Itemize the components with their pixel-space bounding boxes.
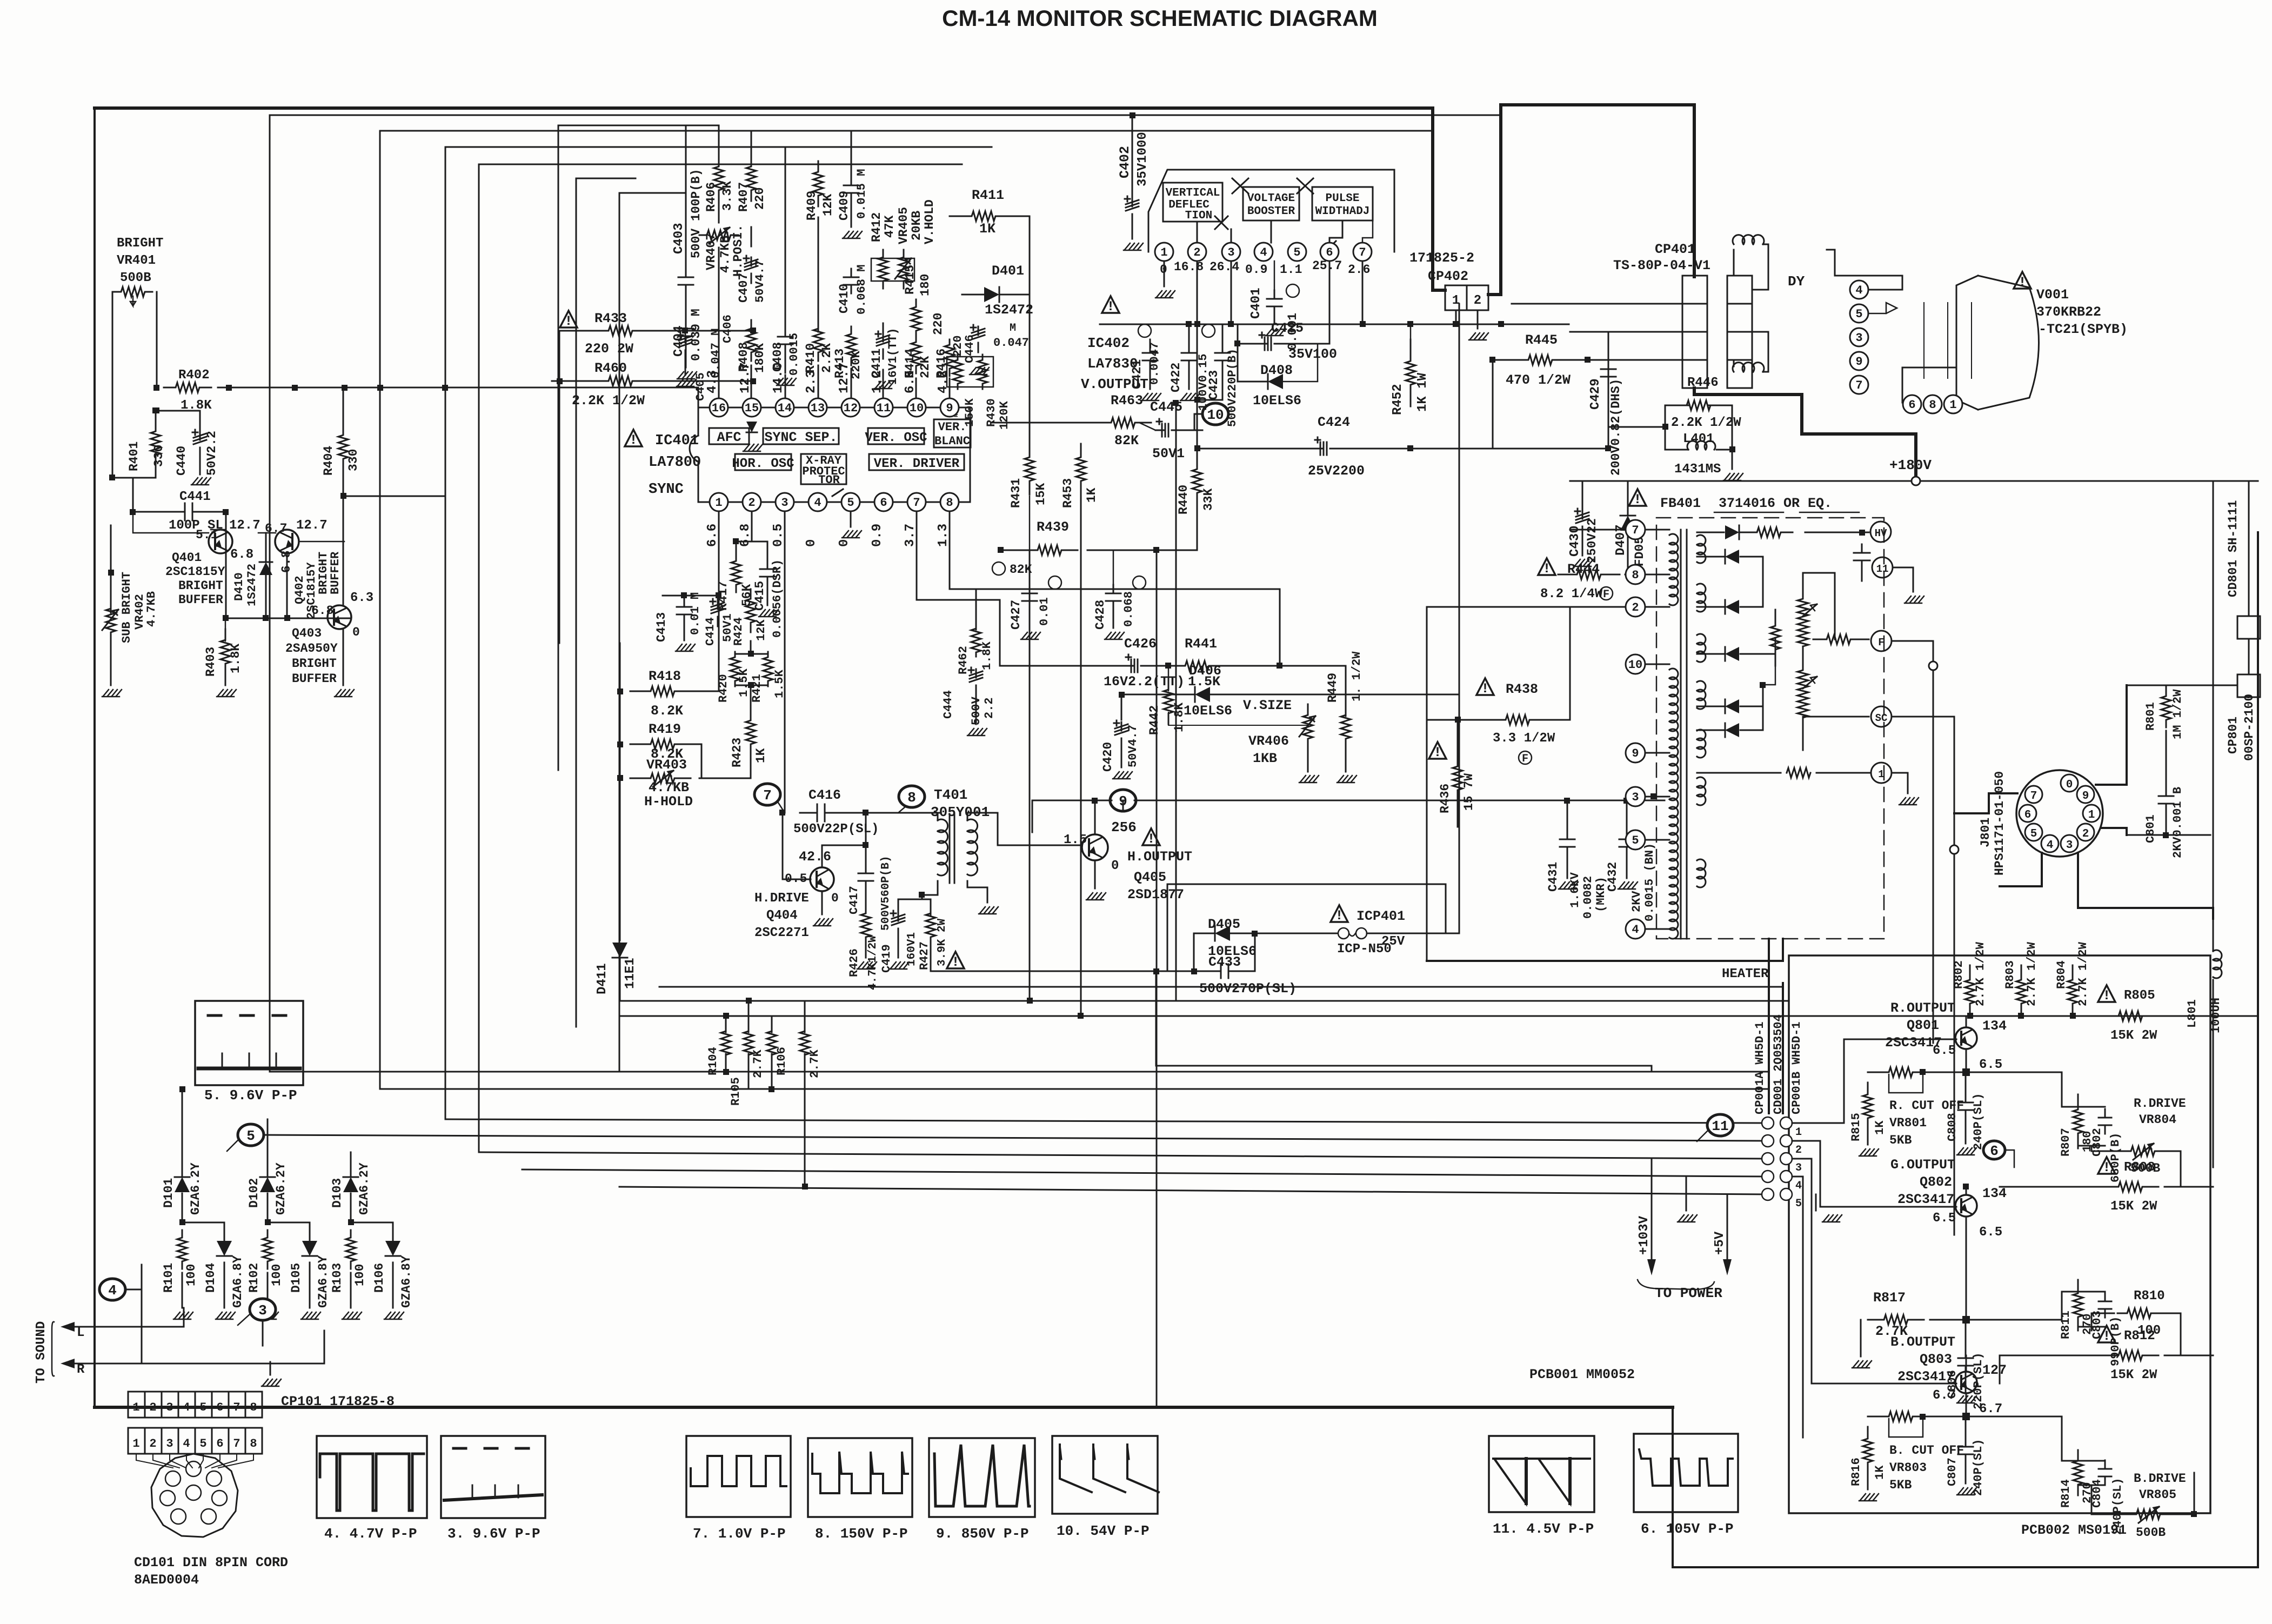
wire R420 R421 bracket: [735, 653, 768, 655]
wire outer border bottom: [95, 1406, 1673, 1409]
svg-text:VR405: VR405: [897, 207, 911, 244]
svg-text:R442: R442: [1147, 705, 1161, 735]
svg-text:12K: 12K: [821, 193, 835, 216]
svg-text:12.7: 12.7: [738, 362, 753, 393]
resistor R439 82K: [1021, 545, 1078, 555]
pin 10: [907, 398, 926, 417]
svg-text:R808: R808: [2124, 1160, 2155, 1175]
svg-text:2: 2: [1632, 601, 1639, 614]
wire RGB collector rail: [1970, 1015, 2114, 1017]
svg-text:15K 2W: 15K 2W: [2110, 1368, 2157, 1382]
svg-text:C415: C415: [753, 581, 767, 611]
wire L801 feed from 180V rail: [2213, 481, 2214, 919]
resistor R424 12K: [746, 589, 756, 632]
svg-text:11E1: 11E1: [623, 958, 638, 989]
wire Q401 base link: [133, 512, 209, 533]
wire J801 bottom feed: [2000, 853, 2042, 886]
svg-text:R453: R453: [1061, 478, 1075, 508]
svg-text:C420: C420: [1101, 742, 1115, 772]
pin IC402 6: [1320, 243, 1339, 261]
svg-text:1: 1: [1949, 398, 1956, 412]
svg-text:330: 330: [346, 449, 360, 471]
resistor R436 15 7W: [1453, 750, 1462, 806]
svg-text:VER.: VER.: [938, 420, 967, 434]
pin FB401 9: [1626, 743, 1645, 763]
wire Q405 top link: [1167, 884, 1446, 885]
circled 11: [1707, 1114, 1733, 1136]
svg-text:VR803: VR803: [1889, 1461, 1927, 1475]
resistor R803 2.7K 1/2W: [2016, 966, 2026, 1017]
wire bus h y2132: [479, 1152, 1768, 1159]
svg-text:R105: R105: [729, 1077, 743, 1106]
pin J801 4: [2041, 835, 2059, 852]
svg-text:VR403: VR403: [646, 757, 687, 773]
wire T401 primary top: [937, 813, 939, 820]
svg-text:Q801: Q801: [1907, 1018, 1939, 1033]
wire resistor on 1 line: [1697, 772, 1781, 774]
svg-text:8: 8: [946, 496, 953, 510]
svg-text:33K: 33K: [1201, 488, 1215, 511]
pin V001 4: [1850, 280, 1868, 299]
wire bus h y1826: [659, 986, 1783, 988]
svg-text:4: 4: [108, 1282, 117, 1299]
svg-text:7. 1.0V P-P: 7. 1.0V P-P: [693, 1526, 786, 1542]
pin IC402 3: [1222, 243, 1240, 261]
flyback core: [1680, 530, 1682, 939]
svg-text:2.2K 1/2W: 2.2K 1/2W: [1671, 416, 1741, 430]
block VER OSC: [868, 428, 924, 444]
wire R453 column down: [1080, 483, 1082, 1016]
pin 14: [776, 398, 794, 417]
resistor R419 8.2K: [630, 739, 695, 749]
potentiometer focus arrow 1: [1803, 604, 1817, 616]
svg-text:C432: C432: [1606, 862, 1620, 892]
connector CP101 row2: [128, 1428, 145, 1454]
svg-text:PULSE: PULSE: [1325, 192, 1359, 205]
svg-text:Q404: Q404: [766, 908, 798, 923]
svg-text:2.6: 2.6: [1348, 263, 1370, 277]
wire 1.8K tap: [157, 410, 200, 412]
wire bus v x499: [270, 115, 1501, 1072]
wire outer border left: [93, 108, 96, 1407]
diode D406 10ELS6: [1195, 687, 1210, 702]
resistor HV line: [1745, 527, 1793, 537]
svg-text:2SC1815Y: 2SC1815Y: [165, 565, 225, 579]
svg-text:D105: D105: [289, 1263, 303, 1293]
wire Q401 emitter row: [226, 618, 350, 619]
svg-text:2SA950Y: 2SA950Y: [285, 641, 338, 656]
wire terminal SC right: [1892, 716, 1954, 718]
svg-text:R411: R411: [972, 188, 1004, 203]
svg-text:8: 8: [1632, 569, 1639, 582]
svg-text:3: 3: [1632, 791, 1639, 804]
svg-text:100: 100: [184, 1264, 198, 1286]
block SYNC SEP: [763, 428, 839, 444]
svg-text:500V560P(B): 500V560P(B): [880, 856, 892, 931]
terminal 11: [1872, 557, 1893, 578]
wire y1972 to CP001: [1156, 1066, 1652, 1072]
svg-text:160V1: 160V1: [906, 932, 918, 966]
resistor R451 150K v: [953, 355, 963, 389]
wire heater to connector: [1782, 983, 1784, 1113]
diode D104 GZA6.8Y: [217, 1241, 232, 1256]
waveform 4: [317, 1436, 427, 1518]
svg-text:R402: R402: [178, 368, 210, 383]
diode flyback top HV: [1725, 525, 1739, 539]
svg-text:R102: R102: [247, 1263, 261, 1293]
svg-text:+103V: +103V: [1637, 1215, 1652, 1255]
svg-text:1.8K: 1.8K: [229, 644, 243, 673]
svg-text:7: 7: [233, 1437, 240, 1451]
capacitor C424 25V2200: [1314, 448, 1322, 450]
resistor R440 33K: [1192, 456, 1202, 506]
svg-text:C414: C414: [704, 617, 717, 646]
wire thick flyback feed: [1694, 388, 1916, 477]
svg-text:6: 6: [1990, 1143, 1999, 1159]
resistor R404 330: [338, 422, 348, 472]
svg-text:134: 134: [1982, 1186, 2007, 1201]
svg-text:WIDTHADJ: WIDTHADJ: [1315, 205, 1370, 218]
zener at pin15: [746, 422, 757, 432]
flyback secondary winding 6: [1697, 777, 1706, 805]
wire divider top: [1803, 573, 1835, 639]
svg-text:9: 9: [1632, 747, 1639, 760]
svg-text:11: 11: [877, 402, 891, 415]
resistor R804 2.7K 1/2W: [2068, 966, 2077, 1017]
pin FB401 4: [1626, 919, 1645, 939]
svg-text:3. 9.6V P-P: 3. 9.6V P-P: [447, 1526, 540, 1542]
svg-text:!: !: [2102, 1160, 2110, 1175]
svg-text:H.OUTPUT: H.OUTPUT: [1127, 849, 1192, 865]
ground C440: [199, 457, 201, 474]
svg-text:!: !: [1147, 831, 1155, 847]
svg-text:R815: R815: [1849, 1113, 1863, 1141]
ground CP001 5: [1815, 1194, 1817, 1211]
warning R433: [560, 311, 577, 328]
capacitor C446 cap 0.047: [978, 326, 979, 335]
svg-text:C429: C429: [1588, 378, 1603, 410]
svg-text:1K: 1K: [754, 748, 768, 763]
svg-text:CD001 2Q053504: CD001 2Q053504: [1772, 1014, 1785, 1114]
svg-text:11: 11: [1876, 563, 1889, 575]
warning R436: [1429, 742, 1446, 759]
svg-text:4: 4: [1795, 1180, 1802, 1192]
svg-text:1K: 1K: [1085, 487, 1099, 503]
block VER DRIVER: [869, 454, 964, 470]
svg-text:C407: C407: [737, 273, 751, 303]
svg-text:5: 5: [1855, 308, 1862, 321]
svg-text:HV: HV: [1875, 527, 1887, 539]
svg-text:8: 8: [250, 1401, 257, 1414]
wire bus h y1983: [270, 1071, 1768, 1073]
svg-text:0: 0: [352, 625, 360, 639]
svg-text:!: !: [1542, 561, 1551, 577]
pin V001 9: [1850, 352, 1868, 370]
connector CP801 00SP-2100: [2237, 674, 2260, 697]
svg-text:2SC3417: 2SC3417: [1897, 1192, 1954, 1207]
svg-text:C444: C444: [941, 690, 955, 719]
potentiometer screen arrow 2: [1803, 677, 1817, 689]
wire J801 left to SC bus: [1954, 793, 2017, 813]
flyback secondary winding 1: [1697, 535, 1706, 563]
pin 4: [808, 493, 827, 511]
circled 6: [1983, 1141, 2005, 1159]
wire collector top rails: [1969, 965, 1971, 978]
svg-text:C427: C427: [1009, 600, 1023, 630]
wire bus v x1033: [558, 125, 719, 770]
svg-text:8AED0004: 8AED0004: [134, 1572, 199, 1588]
wire pin2 left feed: [1427, 606, 1626, 608]
svg-text:C802: C802: [2090, 1128, 2104, 1157]
terminal SC: [1871, 706, 1892, 727]
svg-text:BLANC: BLANC: [934, 435, 970, 448]
ground pin5: [850, 511, 852, 527]
svg-text:D408: D408: [1260, 363, 1293, 378]
wire forest column drops: [718, 248, 720, 398]
svg-text:5: 5: [199, 1437, 206, 1451]
svg-text:CM-14 MONITOR SCHEMATIC DIAGRA: CM-14 MONITOR SCHEMATIC DIAGRAM: [942, 5, 1378, 31]
svg-text:16: 16: [712, 402, 726, 415]
svg-text:D102: D102: [247, 1178, 261, 1208]
pin IC402 1: [1155, 243, 1173, 261]
capacitor C802 680P(B): [2104, 1109, 2106, 1118]
svg-text:0.047: 0.047: [993, 336, 1029, 350]
inductor DY coil bottom: [1733, 363, 1764, 372]
transistor Q401 2SC1815Y: [209, 530, 232, 553]
svg-text:50V4.7: 50V4.7: [1126, 725, 1140, 767]
wire CD801 feed from 180V rail: [2248, 481, 2250, 616]
svg-text:220: 220: [951, 335, 965, 357]
svg-text:4: 4: [814, 496, 821, 510]
svg-text:VER. DRIVER: VER. DRIVER: [874, 457, 960, 471]
svg-text:6.5: 6.5: [1933, 1211, 1956, 1226]
svg-text:R817: R817: [1873, 1290, 1906, 1306]
potentiometer VR803 B.CUT OFF 5KB: [1878, 1412, 1923, 1421]
svg-text:IC401: IC401: [655, 433, 699, 449]
svg-text:R427: R427: [918, 941, 931, 970]
svg-text:BUFFER: BUFFER: [178, 593, 223, 607]
svg-text:9: 9: [1855, 355, 1862, 369]
svg-text:C402: C402: [1117, 146, 1133, 178]
svg-text:F: F: [1878, 637, 1884, 649]
svg-text:6: 6: [216, 1437, 223, 1451]
svg-text:256: 256: [1111, 819, 1137, 836]
svg-text:C808: C808: [1946, 1113, 1959, 1141]
svg-text:12.7: 12.7: [296, 518, 328, 533]
svg-text:!: !: [629, 432, 637, 448]
svg-text:VER. OSC: VER. OSC: [865, 431, 927, 445]
wire R404 junction row: [343, 496, 445, 497]
svg-text:5: 5: [1632, 834, 1639, 847]
warning R808: [2098, 1157, 2115, 1174]
capacitor C425 35V100: [1258, 343, 1267, 345]
capacitor C804 240P(SL): [2104, 1460, 2106, 1469]
svg-text:R423: R423: [730, 738, 744, 767]
svg-text:3.3 1/2W: 3.3 1/2W: [1493, 731, 1555, 746]
svg-text:250V22: 250V22: [1585, 518, 1599, 563]
svg-text:5KB: 5KB: [1889, 1133, 1912, 1147]
svg-text:R.DRIVE: R.DRIVE: [2134, 1097, 2186, 1111]
circled 7: [754, 784, 780, 805]
svg-text:1.2: 1.2: [870, 370, 885, 393]
svg-text:2: 2: [1474, 293, 1481, 308]
block X-RAY PROTECTOR: [801, 454, 846, 484]
svg-text:VR804: VR804: [2139, 1113, 2176, 1127]
svg-text:PCB001 MM0052: PCB001 MM0052: [1529, 1367, 1635, 1382]
socket DIN CD101 outline: [151, 1454, 238, 1537]
svg-text:4.7KB: 4.7KB: [649, 780, 689, 796]
resistor R463 82K: [1095, 418, 1151, 427]
wire node5 stub: [227, 1140, 238, 1151]
resistor R441 1.5K: [1169, 661, 1225, 671]
svg-text:0: 0: [1111, 859, 1119, 873]
pin V001 5: [1850, 304, 1868, 323]
wire bus h y2071: [445, 1119, 1768, 1123]
pin V001 1: [1944, 395, 1962, 413]
diode D106 GZA6.8Y: [385, 1241, 400, 1256]
svg-text:0: 0: [2066, 779, 2073, 791]
svg-text:12: 12: [844, 402, 858, 415]
diode flyback 2: [1725, 550, 1739, 564]
wire Q403 emitter down: [343, 629, 344, 685]
block HOR OSC: [735, 454, 791, 470]
connector DY boxes: [1727, 276, 1752, 304]
svg-text:!: !: [2018, 275, 2026, 290]
terminal HV: [1870, 522, 1891, 542]
resistor flyback divider big top: [1797, 574, 1808, 623]
warning R438: [1476, 678, 1494, 695]
svg-text:5: 5: [847, 496, 854, 510]
svg-text:0.0015: 0.0015: [787, 333, 801, 376]
wire J801 top right to R801 rail: [2096, 685, 2127, 785]
svg-text:0: 0: [837, 539, 852, 547]
svg-text:7: 7: [233, 1401, 240, 1414]
svg-text:50V1: 50V1: [1152, 446, 1185, 462]
svg-text:1S2472: 1S2472: [985, 302, 1033, 318]
CRT gun details: [1868, 303, 1897, 313]
PCB002 outline: [1789, 955, 2210, 1513]
pin 3: [776, 493, 794, 511]
potentiometer VR801 R.CUT OFF 5KB: [1878, 1067, 1923, 1077]
svg-text:R446: R446: [1687, 376, 1719, 390]
ground IC402 pin1: [1164, 261, 1165, 286]
wire bus v x824: [445, 147, 992, 1119]
wire J801 right to C801 rail: [2101, 828, 2127, 835]
svg-text:R418: R418: [649, 669, 681, 684]
svg-text:26.4: 26.4: [1209, 260, 1239, 274]
diode flyback 5: [1725, 699, 1739, 713]
pin V001 6: [1903, 395, 1921, 413]
svg-text:82K: 82K: [1114, 433, 1139, 449]
svg-text:35V100: 35V100: [1288, 346, 1337, 362]
capacitor C417 500V560P(B): [865, 865, 867, 873]
svg-text:R814: R814: [2059, 1479, 2073, 1508]
capacitor C807 240P(SL): [1965, 1438, 1967, 1447]
svg-text:R441: R441: [1185, 636, 1217, 652]
wire R427 bottom to C433 line: [931, 971, 1059, 972]
circled 10: [1202, 403, 1228, 425]
svg-text:220: 220: [931, 313, 945, 335]
svg-text:R.OUTPUT: R.OUTPUT: [1890, 1000, 1955, 1016]
svg-text:1K 1W: 1K 1W: [1415, 372, 1430, 412]
pin 13: [808, 398, 827, 417]
node circled 5: [238, 1124, 264, 1146]
svg-text:GZA6.2Y: GZA6.2Y: [357, 1162, 371, 1215]
svg-text:1: 1: [1160, 246, 1167, 259]
wire pin1 down: [718, 511, 720, 596]
svg-text:2: 2: [748, 496, 755, 510]
capacitor C419 160V1: [898, 912, 899, 921]
svg-text:R436: R436: [1438, 784, 1452, 813]
svg-text:R424: R424: [732, 617, 745, 646]
svg-text:C804: C804: [2090, 1479, 2104, 1508]
svg-text:4.7K1/2W: 4.7K1/2W: [867, 935, 879, 990]
svg-text:180K: 180K: [753, 343, 767, 373]
svg-text:C409: C409: [837, 191, 851, 220]
wire bus x3616 down: [1954, 717, 1955, 1235]
svg-text:2: 2: [149, 1437, 156, 1451]
svg-text:D104: D104: [204, 1263, 218, 1293]
svg-text:C413: C413: [654, 612, 669, 642]
svg-text:FB401: FB401: [1660, 496, 1701, 511]
svg-text:1.5: 1.5: [1064, 833, 1087, 847]
resistor R420 1.5K: [730, 652, 740, 686]
svg-text:4.2: 4.2: [936, 370, 951, 393]
svg-text:2: 2: [2082, 828, 2089, 840]
wire CP101 pin fanout: [136, 1454, 173, 1468]
svg-text:C401: C401: [1249, 288, 1264, 319]
svg-text:L801: L801: [2186, 999, 2199, 1028]
wire bus v x1146: [619, 193, 686, 1072]
svg-text:VR805: VR805: [2139, 1488, 2176, 1502]
flyback secondary winding 2: [1697, 584, 1706, 612]
wire bus h y2196: [619, 1187, 1768, 1194]
ground Q403: [336, 690, 341, 696]
svg-text:!: !: [1433, 745, 1441, 760]
svg-text:0.5: 0.5: [771, 524, 786, 547]
svg-text:R812: R812: [2124, 1329, 2155, 1344]
svg-text:C404: C404: [672, 325, 686, 357]
svg-text:R811: R811: [2059, 1311, 2073, 1339]
svg-text:10. 54V P-P: 10. 54V P-P: [1057, 1523, 1150, 1539]
svg-text:R401: R401: [127, 442, 141, 471]
svg-text:R804: R804: [2055, 960, 2068, 989]
svg-text:0.015 M: 0.015 M: [855, 169, 868, 219]
diode flyback 6: [1725, 723, 1739, 737]
svg-text:CP402: CP402: [1428, 269, 1468, 284]
svg-text:2.3: 2.3: [804, 370, 819, 393]
svg-text:C416: C416: [808, 787, 841, 803]
svg-text:2: 2: [1795, 1144, 1802, 1157]
pin 1: [710, 493, 728, 511]
warning IC401: [625, 430, 642, 446]
pin IC402 5: [1288, 243, 1306, 261]
wire R433 R460 vertical: [559, 331, 560, 643]
pin FB401 3: [1626, 787, 1645, 806]
svg-text:VR401: VR401: [117, 253, 156, 268]
svg-text:1.8K: 1.8K: [980, 641, 994, 670]
svg-text:9. 850V P-P: 9. 850V P-P: [936, 1526, 1029, 1542]
block VERTICAL DEFLECTION: [1163, 183, 1222, 222]
svg-text:220: 220: [753, 188, 767, 210]
waveform 5: [195, 1001, 303, 1085]
svg-text:3: 3: [1227, 246, 1234, 259]
svg-text:R805: R805: [2124, 988, 2155, 1003]
wire terminal 1 stub: [1892, 773, 1908, 793]
svg-text:B.OUTPUT: B.OUTPUT: [1890, 1334, 1955, 1350]
svg-text:ICP401: ICP401: [1356, 908, 1405, 924]
svg-text:6: 6: [1908, 398, 1915, 412]
